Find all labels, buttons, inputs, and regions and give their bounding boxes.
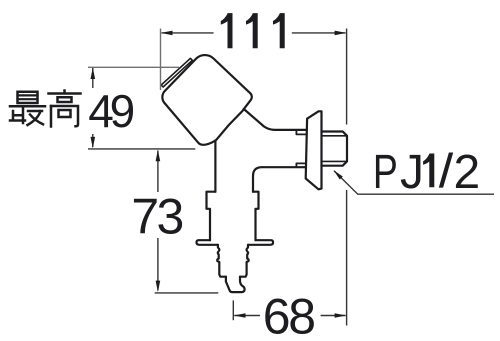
svg-text:P: P bbox=[373, 145, 398, 199]
dim 68 extension right bbox=[346, 190, 348, 326]
kanji 高 (high) bbox=[49, 91, 81, 127]
arrowhead PJ leader bbox=[334, 170, 343, 179]
body right diagonal to pipe bbox=[244, 109, 308, 130]
serrated left side bbox=[217, 245, 226, 277]
dim 68 line bbox=[234, 315, 345, 317]
handle bbox=[162, 55, 251, 145]
pipe neck tick bottom bbox=[296, 163, 306, 167]
svg-text:2: 2 bbox=[454, 146, 481, 199]
dim text 111 (custom narrow 1 glyphs) bbox=[221, 13, 285, 48]
dim 49 line bbox=[92, 68, 94, 147]
outlet nut bbox=[207, 192, 259, 241]
pipe bottom wire bbox=[253, 167, 306, 192]
arrowhead 73 up bbox=[156, 150, 161, 162]
dim 111 extension right bbox=[346, 29, 348, 125]
dim 111 line bbox=[162, 32, 346, 34]
nozzle tip hook bbox=[226, 277, 245, 292]
dim 73 extension bottom bbox=[155, 292, 219, 294]
dim 68 extension left bbox=[232, 300, 234, 320]
flange bbox=[306, 111, 322, 189]
arrowhead 68 right bbox=[335, 313, 347, 318]
PJ leader line bbox=[334, 171, 494, 194]
pipe neck tick top bbox=[296, 130, 307, 135]
serrated right side bbox=[240, 245, 249, 277]
threaded nipple bbox=[322, 132, 348, 166]
dimension graphics bbox=[88, 29, 494, 326]
escutcheon flare bbox=[197, 240, 274, 245]
svg-text:49: 49 bbox=[88, 85, 135, 137]
arrowhead 111 right bbox=[335, 31, 347, 36]
handle tab bbox=[161, 58, 192, 87]
arrowhead 49 up bbox=[91, 68, 96, 80]
body left wire bbox=[214, 140, 216, 191]
dim 49 extension top bbox=[88, 66, 179, 68]
kanji 最 (max) bbox=[10, 92, 45, 125]
arrowhead 49 down bbox=[91, 137, 96, 149]
label PJ1/2 bbox=[373, 145, 480, 199]
dim 49/73 shared extension bbox=[88, 148, 195, 150]
dim 73 line bbox=[157, 151, 159, 291]
nipple chamfer lines bbox=[322, 136, 348, 162]
svg-text:J: J bbox=[400, 146, 424, 199]
arrowhead 111 left bbox=[161, 31, 173, 36]
arrowhead 68 left bbox=[234, 313, 246, 318]
arrowhead 73 down bbox=[156, 281, 161, 293]
svg-text:73: 73 bbox=[131, 188, 184, 244]
dim 111 extension left bbox=[160, 29, 162, 91]
svg-text:68: 68 bbox=[263, 289, 316, 341]
